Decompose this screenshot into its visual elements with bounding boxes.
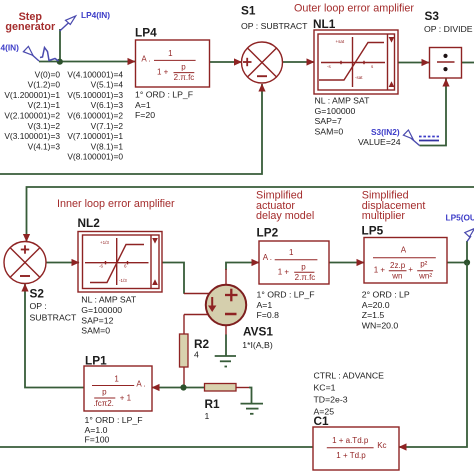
svg-text:A=1: A=1 — [135, 100, 151, 110]
svg-text:delay model: delay model — [256, 210, 314, 222]
svg-text:OP : DIVIDE: OP : DIVIDE — [424, 24, 473, 34]
wire: NL1 output to S3 input — [398, 62, 429, 64]
params LP1 — [85, 415, 143, 445]
svg-text:Z=1.5: Z=1.5 — [362, 310, 385, 320]
svg-text:V(8.1)=1: V(8.1)=1 — [91, 141, 124, 151]
params LP4 — [135, 90, 193, 121]
wire: step generator to LP4 input (node IN) — [39, 61, 135, 63]
svg-text:1: 1 — [168, 49, 173, 58]
wire: R2 bottom lead to node — [183, 367, 185, 388]
wire: node between LP1 input, R2 bottom and R1 — [152, 387, 205, 389]
label: LP2 — [257, 226, 279, 240]
svg-text:S3: S3 — [425, 9, 440, 23]
divider S3 — [430, 48, 462, 79]
DC level symbol VALUE=24 — [419, 137, 439, 141]
svg-text:1 +: 1 + — [157, 68, 169, 77]
svg-text:V(0)=0: V(0)=0 — [35, 69, 61, 79]
svg-text:V(4.100001)=4: V(4.100001)=4 — [67, 69, 123, 79]
formula LP1 (mirrored) — [92, 375, 146, 409]
svg-text:+sat: +sat — [336, 39, 345, 44]
header: Inner loop error amplifier — [57, 198, 175, 210]
svg-text:1: 1 — [205, 411, 210, 421]
svg-text:6: 6 — [124, 264, 127, 269]
node: junction at R2 / R1 / LP1 input — [180, 384, 186, 390]
svg-text:NL : AMP SAT: NL : AMP SAT — [81, 295, 137, 305]
svg-text:Inner loop error amplifier: Inner loop error amplifier — [57, 198, 175, 210]
svg-text:LP4: LP4 — [135, 26, 157, 40]
wire: R1 right lead to ground — [236, 388, 252, 404]
wire: AVS1 top terminal up and right to LP2 input — [226, 263, 259, 285]
block NL2 (saturation) — [78, 232, 162, 293]
summer S1 — [242, 42, 283, 83]
svg-text:1 +: 1 + — [374, 265, 386, 274]
svg-text:2.π.fc: 2.π.fc — [174, 73, 195, 82]
arrow: into NL1 input — [307, 58, 315, 65]
svg-text:V(2.100001)=2: V(2.100001)=2 — [4, 111, 60, 121]
ground: below AVS1 — [215, 356, 236, 367]
wire: C1 output left to image edge — [0, 446, 313, 448]
svg-text:V(1.200001)=1: V(1.200001)=1 — [4, 90, 60, 100]
svg-text:p: p — [181, 63, 186, 72]
svg-text:G=100000: G=100000 — [315, 106, 356, 116]
svg-text:1° ORD : LP_F: 1° ORD : LP_F — [85, 415, 143, 425]
resistor R2 — [180, 334, 189, 367]
svg-text:VALUE=24: VALUE=24 — [358, 137, 401, 147]
probe -4(IN) arrow — [23, 46, 39, 61]
wire: LP4 output to S1 + input — [210, 61, 241, 63]
svg-text:F=0.8: F=0.8 — [257, 310, 280, 320]
wire: stub up to LP5(OUT) probe — [466, 241, 468, 263]
formula LP4 — [141, 49, 195, 82]
source AVS1 — [206, 285, 246, 325]
label: probe LP4(IN) — [81, 10, 110, 20]
svg-text:1 + a.Td.p: 1 + a.Td.p — [332, 436, 369, 445]
svg-text:NL2: NL2 — [78, 216, 101, 230]
svg-text:F=20: F=20 — [135, 110, 155, 120]
wire: stub up to LP4(IN) probe — [59, 29, 61, 62]
label: AVS1 — [243, 324, 273, 338]
wire: VALUE=24 source to S3 IN2 (bottom) — [420, 78, 447, 146]
svg-text:V(7.100001)=1: V(7.100001)=1 — [67, 131, 123, 141]
label: R1 — [205, 397, 221, 411]
svg-text:V(5.1)=4: V(5.1)=4 — [91, 80, 124, 90]
svg-text:LP1: LP1 — [85, 354, 107, 368]
svg-text:WN=20.0: WN=20.0 — [362, 320, 399, 330]
node: junction at step generator output — [57, 59, 63, 65]
formula C1 — [327, 436, 387, 460]
param: VALUE=24 — [358, 137, 401, 147]
params S2 — [30, 301, 78, 323]
params C1 — [314, 371, 385, 417]
svg-text:.fcπ2.: .fcπ2. — [93, 399, 114, 408]
svg-text:V(1.2)=0: V(1.2)=0 — [28, 80, 61, 90]
param S3 — [424, 24, 473, 34]
svg-text:V(8.100001)=0: V(8.100001)=0 — [67, 152, 123, 162]
svg-text:NL1: NL1 — [313, 17, 336, 31]
svg-text:2z.p: 2z.p — [390, 261, 406, 270]
svg-text:wn²: wn² — [418, 271, 432, 280]
svg-text:generator: generator — [5, 21, 56, 33]
svg-text:1° ORD : LP_F: 1° ORD : LP_F — [257, 290, 315, 300]
arrow: into LP2 input — [252, 259, 260, 266]
svg-text:V(2.1)=1: V(2.1)=1 — [28, 100, 61, 110]
label: NL1 — [313, 17, 336, 31]
svg-text:V(6.100001)=2: V(6.100001)=2 — [67, 111, 123, 121]
svg-text:NL : AMP SAT: NL : AMP SAT — [315, 96, 371, 106]
svg-text:G=100000: G=100000 — [81, 305, 122, 315]
svg-text:SUBTRACT: SUBTRACT — [30, 313, 78, 323]
svg-text:SAM=0: SAM=0 — [81, 326, 110, 336]
block LP1 — [84, 366, 152, 411]
svg-text:C1: C1 — [314, 414, 330, 428]
svg-text:TD=2e-3: TD=2e-3 — [314, 395, 348, 405]
svg-text:-6: -6 — [99, 264, 103, 269]
svg-text:CTRL : ADVANCE: CTRL : ADVANCE — [314, 371, 385, 381]
params LP2 — [257, 290, 315, 321]
svg-text:2° ORD : LP: 2° ORD : LP — [362, 290, 410, 300]
value R1 — [205, 411, 210, 421]
resistor R1 — [205, 384, 237, 392]
arrow: into S2 + input from above — [23, 234, 30, 242]
label: LP1 — [85, 354, 107, 368]
svg-text:SAP=12: SAP=12 — [81, 316, 113, 326]
formula LP2 — [263, 248, 318, 282]
svg-text:AVS1: AVS1 — [243, 324, 273, 338]
block LP2 — [259, 241, 329, 284]
arrow: into S3 input — [422, 59, 430, 66]
svg-text:1*I(A,B): 1*I(A,B) — [242, 340, 273, 350]
svg-text:1 +: 1 + — [278, 268, 290, 277]
param AVS1 — [242, 340, 273, 350]
svg-text:SAP=7: SAP=7 — [315, 116, 342, 126]
wire: feedback LP5 output down and left to C1 input — [399, 263, 467, 448]
svg-text:4(IN): 4(IN) — [1, 43, 20, 53]
arrow: into LP1 input (right side) — [152, 384, 160, 391]
label: probe S3(IN2) — [371, 127, 400, 137]
block C1 — [313, 427, 399, 470]
probe S3(IN2) arrow — [403, 130, 419, 146]
svg-text:A .: A . — [141, 55, 150, 64]
svg-text:+1/3: +1/3 — [100, 240, 109, 245]
svg-text:A=1: A=1 — [257, 300, 273, 310]
svg-text:p: p — [102, 388, 107, 397]
arrow: into S3 IN2 from below — [442, 79, 449, 87]
wire: long net y=186 from S2 + input to right edge — [27, 187, 474, 242]
svg-text:V(4.1)=3: V(4.1)=3 — [28, 141, 61, 151]
svg-text:s: s — [371, 64, 374, 69]
label: S2 — [30, 287, 45, 301]
svg-text:p: p — [301, 262, 306, 271]
svg-text:LP5(OUT): LP5(OUT) — [446, 213, 474, 223]
params LP5 — [362, 290, 410, 331]
block LP4 — [136, 40, 210, 87]
svg-text:wn: wn — [391, 271, 402, 280]
label: C1 — [314, 414, 330, 428]
svg-text:LP4(IN): LP4(IN) — [81, 10, 110, 20]
value table column 1 — [4, 69, 60, 151]
svg-text:A .: A . — [136, 380, 145, 389]
probe LP4(IN) arrow — [60, 16, 76, 31]
summer S2 — [4, 242, 46, 284]
wire: S2 output to NL2 input — [46, 262, 79, 264]
svg-text:S2: S2 — [30, 287, 45, 301]
svg-text:OP :: OP : — [30, 301, 47, 311]
arrow: into S2 - input from below — [21, 284, 28, 292]
svg-text:p²: p² — [420, 260, 427, 269]
svg-text:V(6.1)=3: V(6.1)=3 — [91, 100, 124, 110]
svg-text:+: + — [408, 265, 413, 274]
arrow: into NL2 input — [72, 259, 80, 266]
svg-text:F=100: F=100 — [85, 435, 110, 445]
block NL1 (saturation) — [314, 30, 398, 94]
label: R2 — [194, 337, 210, 351]
arrow: into S1 - input from below — [258, 84, 265, 92]
wire: S3 output to right edge — [462, 62, 474, 64]
header: Outer loop error amplifier — [294, 3, 414, 15]
arrow: into LP5 input — [357, 259, 365, 266]
svg-text:1: 1 — [289, 248, 294, 257]
svg-text:LP5: LP5 — [362, 224, 384, 238]
arrow: into C1 input (right side) — [399, 443, 407, 450]
label: S1 — [241, 4, 256, 18]
svg-text:SAM=0: SAM=0 — [315, 126, 344, 136]
arrow: into S1 + input — [234, 58, 242, 65]
wire: AVS1 lower-left terminal down to R2 — [184, 315, 210, 335]
svg-text:S3(IN2): S3(IN2) — [371, 127, 400, 137]
svg-text:2.π.fc: 2.π.fc — [295, 273, 316, 282]
svg-text:V(3.100001)=3: V(3.100001)=3 — [4, 131, 60, 141]
svg-text:1: 1 — [114, 375, 119, 384]
svg-text:A .: A . — [263, 253, 272, 262]
header: Step generator — [5, 11, 56, 33]
probe LP5(OUT) arrow — [465, 229, 474, 242]
arrow: into LP4 input — [128, 58, 136, 65]
params NL1 — [315, 96, 371, 137]
svg-text:multiplier: multiplier — [362, 210, 406, 222]
svg-text:A=1.0: A=1.0 — [85, 425, 108, 435]
header: Simplified displacement multiplier — [362, 190, 426, 223]
wire: NL2 output down to AVS1 upper-left terminal — [162, 263, 210, 294]
wire: feedback from left edge along y=173 up into S1 - input — [0, 84, 262, 174]
params NL2 — [81, 295, 137, 336]
svg-text:1 + Td.p: 1 + Td.p — [336, 451, 366, 460]
svg-text:-1/3: -1/3 — [119, 278, 127, 283]
param S1 — [241, 21, 308, 31]
label: probe -4(IN) — [1, 43, 20, 53]
svg-text:V(5.100001)=3: V(5.100001)=3 — [67, 90, 123, 100]
svg-text:4: 4 — [194, 350, 199, 360]
svg-text:LP2: LP2 — [257, 226, 279, 240]
ground: at R1 right — [241, 404, 264, 414]
value R2 — [194, 350, 199, 360]
value table column 2 — [67, 69, 123, 161]
wire: LP5 output to node OUT — [447, 262, 467, 264]
svg-text:Kc: Kc — [377, 441, 386, 450]
svg-text:A: A — [401, 246, 407, 255]
wire: S1 output to NL1 input — [283, 61, 314, 63]
svg-text:-s: -s — [327, 64, 331, 69]
node: junction at LP5 output — [464, 259, 470, 265]
svg-text:-sat: -sat — [355, 75, 363, 80]
svg-text:OP : SUBTRACT: OP : SUBTRACT — [241, 21, 308, 31]
formula LP5 — [373, 246, 436, 281]
step generator waveform symbol — [40, 48, 59, 62]
svg-text:S1: S1 — [241, 4, 256, 18]
label: LP4 — [135, 26, 157, 40]
wire: AVS1 bottom lead to ground — [225, 325, 227, 355]
svg-text:KC=1: KC=1 — [314, 383, 336, 393]
header: Simplified actuator delay model — [256, 190, 314, 223]
svg-text:+ 1: + 1 — [120, 394, 132, 403]
label: S3 — [425, 9, 440, 23]
label: probe LP5(OUT) — [446, 213, 474, 223]
block LP5 — [364, 238, 447, 284]
svg-text:R1: R1 — [205, 397, 221, 411]
wire: LP2 output to LP5 input — [329, 262, 364, 264]
svg-text:Outer loop error amplifier: Outer loop error amplifier — [294, 3, 414, 15]
svg-text:1° ORD : LP_F: 1° ORD : LP_F — [135, 90, 193, 100]
wire: LP1 output to S2 - input (bottom) — [25, 284, 84, 388]
svg-text:V(7.1)=2: V(7.1)=2 — [91, 121, 124, 131]
label: NL2 — [78, 216, 101, 230]
svg-text:A=20.0: A=20.0 — [362, 300, 390, 310]
label: LP5 — [362, 224, 384, 238]
svg-text:V(3.1)=2: V(3.1)=2 — [28, 121, 61, 131]
